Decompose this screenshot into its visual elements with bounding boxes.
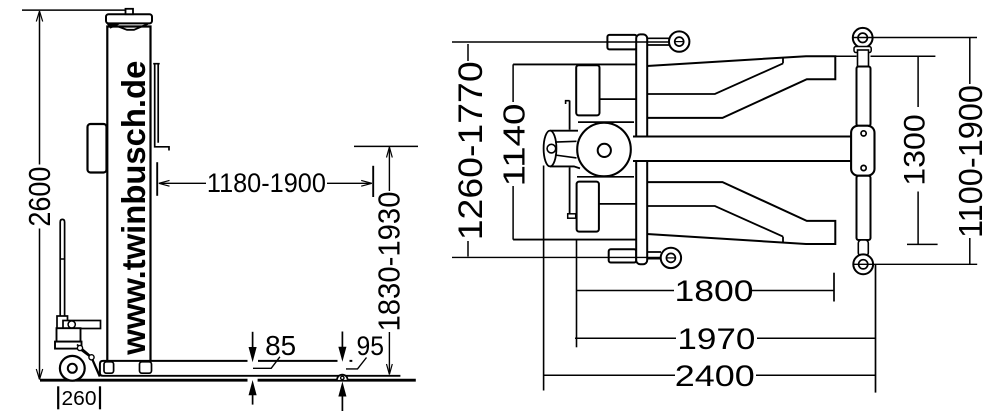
tow bar pivot <box>68 321 75 328</box>
dim 85 lower arrow <box>249 382 256 395</box>
svg-text:1830-1930: 1830-1930 <box>372 192 407 332</box>
housing lower trapezoid <box>111 24 148 30</box>
handle rod <box>60 219 64 319</box>
post cylinder rear <box>550 130 580 168</box>
dim 260 left bar <box>57 386 59 409</box>
lower pad bracket <box>577 182 599 232</box>
svg-text:2600: 2600 <box>22 167 57 227</box>
svg-text:85: 85 <box>265 330 296 361</box>
svg-text:1970: 1970 <box>677 323 755 356</box>
top pad axle <box>647 38 669 45</box>
top wheel pad plate <box>607 35 636 50</box>
link bar bottom ball <box>853 254 873 274</box>
link bar body <box>851 126 874 176</box>
dim 1300 line <box>917 56 919 244</box>
cable guide wedge <box>108 24 120 28</box>
dim 2400 left tick <box>543 166 545 391</box>
dim 1100-1900 top tick <box>853 37 977 39</box>
svg-text:95: 95 <box>357 331 385 361</box>
svg-text:1800: 1800 <box>675 275 754 308</box>
lower plate B top line <box>599 203 637 205</box>
arrow up 1830-1930 <box>387 147 393 158</box>
post column <box>107 27 150 361</box>
center tube <box>633 138 851 161</box>
carriage stub bottom <box>568 214 576 218</box>
link bar collar <box>854 47 871 53</box>
linkage pivot b <box>89 355 94 360</box>
linkage strut 1 <box>77 345 93 359</box>
arrow right 1180-1900 <box>361 180 372 186</box>
bottom wheel pad plate <box>609 249 637 262</box>
svg-text:1180-1900: 1180-1900 <box>207 168 326 198</box>
svg-text:1140: 1140 <box>497 104 532 187</box>
dim 1180-1900 right tick <box>372 166 374 197</box>
dim 1800 right tick <box>833 273 835 302</box>
tow bar to post <box>63 321 101 329</box>
arm tip roller <box>337 375 348 380</box>
dim 1300 bottom tick <box>907 243 938 245</box>
link bar lower neck <box>858 240 868 256</box>
svg-text:260: 260 <box>62 387 97 410</box>
base/arm top edge <box>103 360 352 362</box>
link bar upper neck <box>858 50 869 67</box>
bottom pad axis line / 1260-1770 bottom tick <box>452 256 661 258</box>
base roller 1 <box>104 362 114 373</box>
dim 1830-1930 top tick <box>354 145 418 147</box>
top pad axis line / 1260-1770 top tick <box>452 41 669 43</box>
upper pad bracket <box>576 65 599 115</box>
link bar lower section <box>857 176 871 240</box>
block on post left <box>88 124 107 173</box>
carriage rail right of post <box>153 64 169 151</box>
pump base plate <box>55 342 82 349</box>
post top pulley housing <box>106 14 152 23</box>
lower plate top edge <box>577 176 634 178</box>
svg-text:1300: 1300 <box>898 114 931 186</box>
arrow down 2600 <box>36 369 42 380</box>
dimension 2600 top tick <box>22 9 127 11</box>
post top cap <box>126 9 134 14</box>
dim 1180-1900 left tick <box>156 162 158 196</box>
carriage plate top edge / 1140 top tick <box>513 63 637 65</box>
linkage strut 2 <box>92 358 100 377</box>
dim 1140 line <box>512 64 514 239</box>
ground <box>40 379 416 382</box>
dim 1970 line <box>575 337 876 339</box>
dim 1970 right vertical <box>875 265 877 393</box>
dim 1300 top tick <box>835 55 935 57</box>
dim 85 upper arrow <box>252 332 254 349</box>
linkage pivot a <box>77 345 82 350</box>
leader 85 <box>253 357 280 369</box>
leader 95 <box>346 358 367 369</box>
upper arm <box>647 56 835 118</box>
lower arm <box>647 182 835 244</box>
handle clevis <box>57 316 68 332</box>
dim 1830-1930 line <box>388 148 390 374</box>
dim 1100-1900 bottom tick <box>853 263 977 265</box>
link bar top ball <box>853 28 873 48</box>
base/arm bottom edge <box>103 375 400 377</box>
link bar upper section <box>857 67 871 127</box>
dim 1260-1770 line <box>467 44 469 257</box>
carriage vertical edge <box>569 101 571 216</box>
dim 2400 line <box>544 374 876 376</box>
arm tip roller hub <box>341 376 344 379</box>
crossbeam <box>636 34 647 264</box>
bottom left ball pad <box>661 248 681 268</box>
handle joint line <box>60 258 64 260</box>
carriage stub top <box>566 101 570 104</box>
top left ball pad <box>669 31 689 51</box>
dimension 2600 line <box>39 12 41 379</box>
disc hub <box>598 144 611 157</box>
svg-text:1100-1900: 1100-1900 <box>952 85 989 238</box>
dim 1800 line <box>577 290 835 292</box>
base roller 2 <box>140 362 152 373</box>
svg-text:1260-1770: 1260-1770 <box>452 61 490 240</box>
steer wheel <box>60 356 85 381</box>
arrow up 2600 <box>36 11 42 22</box>
dim 1100-1900 line <box>969 38 971 265</box>
wheel hub <box>68 364 77 373</box>
upper plate lower edge <box>578 121 634 123</box>
dim 1800 left vertical <box>576 240 578 347</box>
arrow left 1180-1900 <box>159 180 170 186</box>
svg-text:www.twinbusch.de: www.twinbusch.de <box>115 61 152 356</box>
dim 95 lower arrow <box>339 383 346 396</box>
arrow down 1830-1930 <box>387 364 393 375</box>
carriage plate bottom edge / 1140 bottom tick <box>513 239 637 241</box>
pump body <box>57 328 81 342</box>
dim 1180-1900 line <box>160 182 372 184</box>
svg-text:2400: 2400 <box>675 360 755 393</box>
turntable disc <box>577 123 631 177</box>
dim 260 right bar <box>99 386 101 409</box>
base left cap <box>100 361 103 376</box>
dim 95 upper arrow <box>341 332 343 348</box>
bottom pad axle <box>647 252 661 259</box>
upper plate B bottom line <box>600 98 637 100</box>
